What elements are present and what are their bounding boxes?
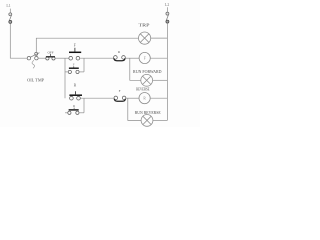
svg-text:F: F	[73, 63, 75, 67]
svg-text:TRP: TRP	[139, 23, 151, 28]
svg-text:L1: L1	[6, 3, 10, 8]
svg-text:F: F	[74, 43, 76, 47]
svg-text:REVERSE: REVERSE	[136, 88, 150, 92]
svg-text:F: F	[119, 89, 121, 93]
svg-text:L2: L2	[165, 2, 169, 7]
svg-text:F: F	[144, 56, 146, 60]
svg-text:OFF: OFF	[47, 50, 53, 54]
svg-text:RUN REVERSE: RUN REVERSE	[135, 110, 161, 115]
svg-text:RUN FORWARD: RUN FORWARD	[133, 69, 162, 74]
svg-text:OIL TMP: OIL TMP	[27, 78, 44, 82]
